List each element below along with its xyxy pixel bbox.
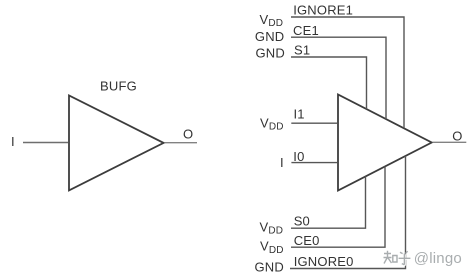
svg-text:CE0: CE0: [294, 233, 320, 248]
svg-text:I: I: [11, 134, 15, 149]
wire CE1: [291, 37, 386, 119]
watermark: [384, 250, 463, 268]
svg-text:IGNORE1: IGNORE1: [293, 3, 353, 18]
wire S1: [291, 57, 367, 109]
svg-text:@lingo: @lingo: [414, 250, 462, 267]
svg-text:I0: I0: [293, 149, 304, 164]
svg-text:GND: GND: [255, 29, 285, 44]
svg-text:CE1: CE1: [293, 23, 319, 38]
wire U2 output O: [433, 141, 467, 143]
svg-text:I1: I1: [294, 106, 305, 121]
svg-text:BUFG: BUFG: [100, 79, 137, 94]
wire I1: [291, 122, 337, 124]
svg-text:O: O: [452, 128, 462, 143]
svg-text:O: O: [183, 127, 193, 142]
svg-text:I: I: [280, 155, 284, 170]
wire U1 input I: [23, 142, 68, 144]
svg-text:IGNORE0: IGNORE0: [294, 254, 354, 269]
svg-text:GND: GND: [255, 260, 285, 275]
svg-text:GND: GND: [256, 45, 286, 60]
svg-text:S0: S0: [294, 214, 310, 229]
wire S0: [291, 176, 366, 228]
buffer U1 BUFG: [69, 95, 164, 190]
wire U1 output O: [165, 142, 198, 144]
svg-text:S1: S1: [294, 43, 310, 58]
buffer U2 BUFGCTRL: [338, 95, 432, 191]
wire IGNORE1: [291, 17, 404, 128]
wire IGNORE0: [290, 156, 406, 269]
wire CE0: [291, 166, 385, 247]
wire I0: [291, 162, 337, 164]
